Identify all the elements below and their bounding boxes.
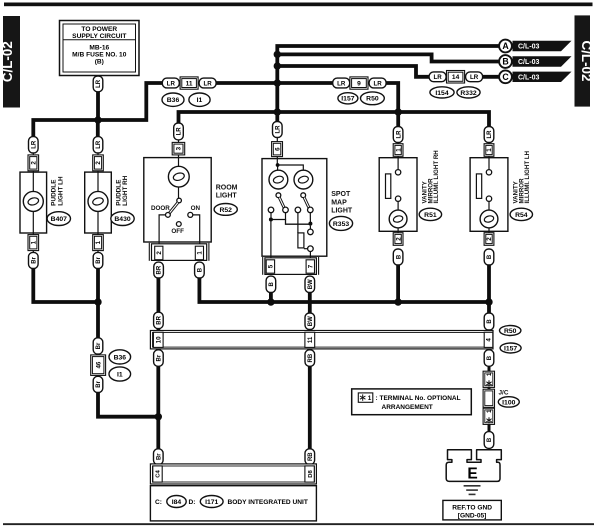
node power/puddle junction: [94, 116, 101, 123]
svg-text:11: 11: [186, 81, 193, 88]
svg-text:LIGHT LH: LIGHT LH: [58, 176, 65, 206]
pin 10 strip: [153, 332, 163, 347]
svg-text:C: C: [502, 72, 509, 82]
lamp symbol vanity LH: [480, 210, 498, 228]
svg-text:R332: R332: [460, 90, 476, 97]
switch contact top vanity RH: [395, 170, 400, 175]
switch contact top vanity LH: [486, 170, 491, 175]
pin 2 vanity RH: [393, 233, 403, 246]
svg-text:I1: I1: [117, 371, 123, 378]
wire label LR vanity RH: [393, 127, 403, 143]
component oval R51: [419, 208, 441, 220]
connector LR 9 LR (I157/R50): [333, 78, 350, 88]
node vanity RH feed: [395, 108, 402, 115]
connector oval R332: [457, 87, 480, 98]
room light bottom connector strip pins 2 and 1: [149, 243, 209, 261]
lamp symbol spot 1: [269, 170, 288, 189]
wire spot pin5 and pin7 leads: [270, 222, 272, 259]
svg-text:A: A: [502, 41, 509, 51]
svg-text:C/L-03: C/L-03: [518, 74, 540, 81]
svg-text:11: 11: [307, 336, 314, 343]
svg-text:E: E: [467, 465, 477, 482]
svg-text:10: 10: [155, 336, 162, 343]
svg-text:1: 1: [486, 372, 493, 376]
svg-text:D:: D:: [189, 499, 196, 506]
svg-text:1: 1: [95, 240, 102, 244]
pin 11 strip: [305, 332, 315, 347]
wire LR distribution y112 room light to vanity LH: [179, 112, 490, 130]
pin C4 body unit: [153, 466, 162, 482]
wire spot link bars: [270, 213, 272, 220]
svg-text:LR: LR: [96, 140, 102, 149]
svg-text:2: 2: [486, 237, 493, 241]
svg-text:RB: RB: [308, 353, 314, 362]
node bus B branch: [274, 51, 281, 58]
switch slide bar vanity LH: [476, 174, 481, 199]
node bus LR wire: [274, 79, 281, 86]
svg-text:C/L-03: C/L-03: [518, 44, 540, 51]
pin 1 vanity LH: [484, 144, 494, 157]
wire label B vanity LH: [484, 249, 494, 265]
connector oval I157 right: [500, 343, 521, 353]
page arrow B to C/L-03: [499, 55, 571, 68]
wire from connector 46 to body unit node: [98, 390, 158, 417]
pin D8 body unit: [305, 466, 314, 482]
svg-text:BODY INTEGRATED UNIT: BODY INTEGRATED UNIT: [228, 499, 308, 506]
svg-text:LR: LR: [470, 74, 479, 81]
body integrated unit connector strip: [150, 464, 316, 484]
svg-text:B: B: [396, 254, 402, 259]
pin 2 room light: [155, 246, 163, 260]
node spot link left: [269, 218, 273, 222]
wire label BR room light: [154, 262, 164, 278]
wire label B above ground: [484, 432, 494, 449]
svg-text:BW: BW: [308, 316, 314, 326]
svg-text:B: B: [502, 57, 508, 67]
svg-text:LR: LR: [167, 80, 176, 87]
component oval R52: [214, 204, 237, 216]
node vanity LH B joins bus: [485, 298, 492, 305]
connector oval B36 lower: [109, 350, 131, 364]
pin 1 puddle RH: [93, 235, 104, 251]
svg-text:1: 1: [486, 148, 493, 152]
pin 3 room light: [172, 142, 185, 155]
wire branch line C to connector 14: [277, 66, 432, 77]
svg-text:LIGHT: LIGHT: [216, 193, 238, 200]
page frame top border bar: [4, 3, 593, 7]
label REF.TO GND GND-05: [443, 500, 501, 520]
svg-text:Br: Br: [156, 453, 162, 460]
pin 1 room light: [195, 246, 203, 260]
connector oval I100: [498, 397, 519, 407]
switch slide bar vanity RH: [386, 174, 391, 199]
svg-text:R50: R50: [504, 328, 517, 335]
svg-text:1: 1: [486, 409, 493, 413]
svg-text:BR: BR: [157, 265, 163, 274]
svg-text:B407: B407: [51, 216, 67, 223]
wire label LR below fuse box: [93, 76, 103, 92]
wire vanity LH B down to pin 4: [487, 263, 491, 332]
svg-text:7: 7: [308, 264, 315, 268]
wire label Br below pin 10: [154, 350, 164, 367]
connector oval I1 lower: [109, 367, 131, 381]
svg-text:LR: LR: [31, 140, 37, 149]
lamp symbol room light: [168, 166, 189, 187]
wire pin 10 to body unit pin C4: [156, 348, 160, 465]
ground terminal E: [446, 450, 501, 483]
connector oval B36: [162, 93, 184, 106]
connector LR 11 LR (B36/I1): [162, 78, 179, 88]
svg-text:B36: B36: [167, 97, 180, 104]
svg-text:Br: Br: [32, 256, 38, 263]
svg-text:(B): (B): [95, 59, 104, 66]
svg-text:C/L-02: C/L-02: [579, 41, 594, 82]
wire label Br below joint 46: [93, 376, 103, 392]
svg-text:1: 1: [395, 148, 402, 152]
node bus C branch: [274, 62, 281, 69]
svg-text:LIGHT: LIGHT: [331, 207, 353, 214]
svg-text:Br: Br: [96, 256, 102, 263]
pin 46 joint connector: [91, 355, 106, 376]
svg-text:OFF: OFF: [171, 228, 184, 235]
switch room light lever to DOOR: [169, 203, 178, 214]
node spot link right: [308, 222, 312, 226]
resistor in spot map light: [298, 233, 304, 248]
svg-text:R52: R52: [219, 207, 232, 214]
left sidebar label C/L-02: [0, 16, 20, 108]
wire label B vanity RH: [393, 249, 403, 265]
svg-text:R353: R353: [333, 221, 349, 228]
component oval I171: [200, 496, 223, 508]
pin 1 puddle LH: [28, 235, 39, 251]
wire puddle RH drop: [96, 120, 100, 140]
pin 2 vanity LH: [484, 233, 494, 246]
lamp symbol vanity RH: [389, 210, 407, 228]
wire room light B to pin4 bus y302: [199, 276, 489, 302]
wire label LR vanity LH: [484, 127, 494, 143]
svg-text:C:: C:: [155, 499, 162, 506]
svg-text:LR: LR: [96, 79, 102, 88]
svg-text:2: 2: [31, 161, 38, 165]
svg-text:C/L-02: C/L-02: [0, 41, 15, 82]
svg-text:I1: I1: [197, 97, 203, 104]
svg-text:I154: I154: [435, 90, 448, 97]
node spot feed split: [276, 163, 280, 167]
svg-text:LIGHT RH: LIGHT RH: [122, 175, 129, 206]
svg-text:ROOM: ROOM: [216, 185, 238, 192]
wire bus y120 puddle feed with riser to LR connector: [33, 83, 163, 140]
svg-text:6: 6: [274, 147, 281, 151]
svg-text:R54: R54: [515, 212, 528, 219]
node joint 46 branch to C4 wire: [155, 413, 162, 420]
wire LR from connector 11 to bus node: [216, 81, 334, 85]
wire spot to resistor: [297, 213, 299, 233]
svg-text:2: 2: [95, 161, 102, 165]
lamp unit PUDDLE LIGHT LH B407: [20, 152, 47, 253]
terminal *1 box upper: [483, 371, 494, 387]
component oval R54: [510, 208, 532, 220]
pin 6 spot map: [272, 142, 283, 157]
svg-text:B: B: [487, 319, 493, 324]
svg-text:B36: B36: [114, 354, 127, 361]
svg-text:R51: R51: [424, 212, 437, 219]
pin 2 puddle LH: [28, 155, 39, 171]
wire label BR above pin 10: [154, 312, 164, 328]
wire vanity RH B drop to bus: [396, 263, 400, 304]
wire label BW spot map: [305, 276, 315, 292]
svg-text:C/L-03: C/L-03: [518, 59, 540, 66]
svg-text:Br: Br: [157, 354, 163, 361]
svg-text:LR: LR: [396, 130, 402, 139]
wire label BW above pin 11: [305, 313, 315, 330]
wire puddle LH down to ground bus: [33, 266, 100, 302]
svg-text:I157: I157: [341, 96, 354, 103]
svg-text:LR: LR: [433, 74, 442, 81]
page frame bottom border line: [3, 523, 594, 525]
wire power feed down from fuse box: [96, 76, 100, 123]
svg-text:B: B: [487, 355, 493, 360]
svg-text:46: 46: [95, 361, 102, 368]
pin 5 spot map: [266, 260, 274, 273]
component oval I84: [167, 496, 186, 508]
svg-text:[GND-05]: [GND-05]: [458, 512, 487, 519]
connector oval R50 right: [500, 326, 521, 336]
wire branch line B to C/L-03: [277, 54, 500, 61]
svg-text:Br: Br: [96, 380, 102, 387]
wire spot map light BW down to pin 11: [308, 290, 312, 332]
svg-text:SUPPLY CIRCUIT: SUPPLY CIRCUIT: [72, 33, 126, 40]
wire label B above pin 4: [484, 313, 494, 330]
node vanity RH B joins bus: [394, 298, 401, 305]
switch contact DOOR: [159, 215, 166, 245]
node puddle ground joint: [94, 298, 101, 305]
svg-text:LR: LR: [203, 80, 212, 87]
svg-text:2: 2: [156, 251, 163, 255]
right sidebar label C/L-02: [575, 15, 595, 106]
svg-text:1: 1: [30, 240, 37, 244]
svg-text:LR: LR: [373, 80, 382, 87]
svg-text:5: 5: [268, 264, 275, 268]
svg-text:B430: B430: [114, 216, 130, 223]
wire label B room light: [195, 262, 205, 278]
lamp symbol spot 2: [294, 170, 313, 189]
svg-text:ARRANGEMENT: ARRANGEMENT: [382, 404, 433, 411]
svg-text:3: 3: [176, 146, 183, 150]
svg-text:D8: D8: [308, 470, 314, 478]
lamp unit VANITY MIRROR ILLUMI. LIGHT RH R51: [379, 143, 417, 234]
svg-text:1: 1: [197, 251, 204, 255]
svg-text:R50: R50: [366, 96, 379, 103]
wire label RB below pin 11: [305, 350, 315, 367]
connector oval R50 top: [361, 92, 385, 105]
wire label RB above D8: [305, 449, 315, 465]
connector oval I154: [430, 87, 454, 98]
wire pin 11 to body unit pin D8: [308, 348, 312, 465]
wire label B spot map: [266, 276, 276, 292]
svg-text:14: 14: [452, 74, 460, 81]
lamp unit VANITY MIRROR ILLUMI. LIGHT LH R54: [470, 143, 508, 234]
lamp unit PUDDLE LIGHT RH B430: [85, 152, 112, 253]
wire label Br above C4: [154, 449, 164, 465]
wire label Br puddle LH: [29, 252, 39, 268]
node bus y112: [274, 108, 281, 115]
body integrated unit top connector strip: [150, 331, 493, 349]
svg-text:Br: Br: [96, 342, 102, 349]
svg-text:MAP: MAP: [331, 199, 347, 206]
svg-text:SPOT: SPOT: [331, 191, 351, 198]
spot map bottom connector strip pins 5 and 7: [263, 257, 319, 275]
svg-text:LR: LR: [276, 125, 282, 134]
svg-text:B: B: [487, 254, 493, 259]
svg-text:ON: ON: [191, 205, 201, 212]
svg-text:LR: LR: [337, 80, 346, 87]
svg-text:ILLUMI. LIGHT RH: ILLUMI. LIGHT RH: [433, 150, 440, 204]
lamp unit ROOM LIGHT R52: [144, 140, 211, 242]
wire label B below pin 4: [484, 350, 494, 367]
svg-text:B: B: [198, 267, 204, 272]
svg-text:2: 2: [395, 237, 402, 241]
svg-text:BW: BW: [308, 279, 314, 289]
switch contact OFF: [176, 222, 181, 227]
svg-text:BR: BR: [157, 315, 163, 324]
switch spot 1: [276, 193, 281, 198]
svg-text:I157: I157: [504, 345, 517, 352]
unit box BODY INTEGRATED UNIT: [150, 486, 316, 521]
svg-text:C4: C4: [156, 470, 162, 478]
svg-text:4: 4: [486, 338, 493, 342]
lamp symbol puddle LH: [23, 191, 43, 211]
switch contact bottom vanity LH: [486, 196, 491, 201]
page arrow A to C/L-03: [499, 40, 571, 53]
wire label LR spot map: [273, 122, 283, 138]
wire label LR puddle RH: [93, 137, 103, 153]
svg-text:I100: I100: [502, 399, 515, 406]
note box terminal optional arrangement: [352, 389, 472, 415]
svg-text:B: B: [487, 437, 493, 442]
wire LR from connector 9 down to vanity RH branch: [386, 83, 398, 130]
contact circles right column spot: [309, 226, 311, 230]
component oval B407: [47, 212, 70, 226]
svg-text:I171: I171: [205, 499, 218, 506]
terminal *1 box lower: [483, 408, 494, 424]
svg-text:I84: I84: [172, 499, 182, 506]
connector LR 14 LR (I154/R332): [429, 72, 446, 82]
lamp symbol puddle RH: [88, 191, 108, 211]
ground hatch lines: [464, 486, 481, 495]
switch spot 2: [301, 193, 306, 198]
svg-text:9: 9: [357, 81, 361, 88]
svg-text:LR: LR: [487, 130, 493, 139]
lamp unit SPOT MAP LIGHT R353: [262, 137, 327, 256]
svg-text:REF.TO GND: REF.TO GND: [452, 505, 492, 512]
connector oval I1: [189, 93, 210, 106]
svg-text:ILLUMI. LIGHT LH: ILLUMI. LIGHT LH: [524, 150, 531, 203]
wire from connector 14 to arrow C: [482, 75, 500, 79]
joint connector J/C box: [483, 389, 494, 407]
svg-text:1: 1: [368, 395, 372, 402]
wire label Br puddle RH: [93, 252, 103, 268]
connector oval I157 top: [338, 93, 358, 104]
page arrow C to C/L-03: [499, 70, 571, 83]
wire spot map light B drop to bus: [269, 290, 273, 304]
svg-text:: TERMINAL No. OPTIONAL: : TERMINAL No. OPTIONAL: [376, 395, 461, 402]
pin 7 spot map: [306, 260, 314, 273]
svg-text:RB: RB: [308, 452, 314, 461]
component oval R353: [329, 216, 352, 230]
pin 2 puddle RH: [93, 155, 104, 171]
svg-text:B: B: [269, 281, 275, 286]
svg-text:LR: LR: [177, 127, 183, 136]
pin 1 vanity RH: [393, 144, 403, 157]
svg-text:DOOR: DOOR: [151, 205, 170, 212]
svg-text:J/C: J/C: [499, 390, 509, 397]
wire vertical bus x277 with branch line A: [277, 46, 500, 126]
wire label LR puddle LH: [29, 137, 39, 153]
wire label LR room light: [174, 123, 184, 140]
switch contact bottom vanity RH: [395, 196, 400, 201]
switch room light pivot: [177, 198, 182, 203]
wire pin 4 to joint connector I100 and ground: [488, 348, 491, 372]
wire label Br above joint 46: [93, 338, 103, 354]
wire puddle RH down through node to joint connector 46: [96, 266, 100, 340]
component oval B430: [111, 212, 134, 226]
svg-text:MB-16: MB-16: [89, 44, 109, 51]
pin 4 strip: [484, 332, 493, 347]
svg-text:M/B FUSE NO. 10: M/B FUSE NO. 10: [72, 52, 127, 59]
switch contact ON: [193, 215, 200, 245]
node spot B joins bus: [267, 298, 274, 305]
wire room light BR down to pin 10: [156, 276, 160, 332]
power supply circuit box MB-16: [60, 21, 140, 76]
